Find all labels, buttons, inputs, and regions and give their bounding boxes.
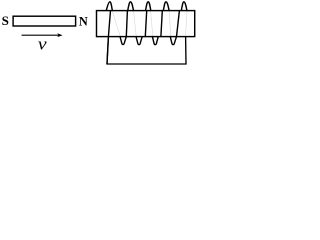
coil cap arc 2 [128,2,134,11]
coil riser line 3 [145,11,146,37]
coil cap arc 1 [106,2,112,11]
bar magnet body [13,16,76,26]
coil cap arc 3 [145,2,151,11]
back slant 4 [169,11,171,36]
svg-text:v: v [38,35,48,54]
back slant 3 [151,11,153,36]
velocity arrow head [57,33,62,37]
velocity arrow shaft [22,34,60,36]
coil dip 4 rising into riser 5 [170,11,179,45]
coil dip 3 [152,37,158,45]
coil cap arc 4 [163,2,169,11]
svg-text:N: N [79,15,88,29]
back slant 2 [134,11,137,36]
coil cap arc 5 [181,2,187,11]
coil riser line 4 [161,11,162,37]
svg-text:S: S [2,13,9,28]
back slant 1 [112,11,120,36]
coil dip 2 [136,37,142,45]
velocity label v [38,35,48,54]
back slant 5 into right lead [186,11,188,37]
solenoid core rectangle [97,11,195,37]
coil riser line 1 with left circuit lead [107,11,111,64]
external circuit loop [107,37,186,64]
coil dip 1 rising into riser 2 [120,11,127,45]
